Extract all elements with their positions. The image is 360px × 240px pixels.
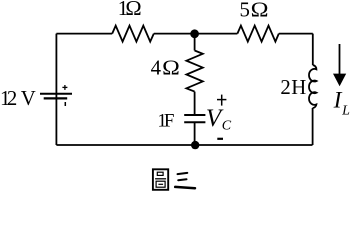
wire middle branch upper bbox=[194, 34, 196, 51]
voltage source V1 12V top plate long bbox=[40, 93, 72, 95]
resistor R3 4ohm zigzag bbox=[186, 51, 202, 92]
wire top-left segment bbox=[56, 33, 112, 35]
wire right branch lower bbox=[312, 108, 314, 145]
wire bottom bbox=[56, 144, 312, 146]
capacitor C1 1F top plate bbox=[184, 114, 205, 116]
svg-text:5: 5 bbox=[240, 0, 250, 21]
resistor R2 5ohm zigzag bbox=[237, 26, 278, 42]
svg-text:F: F bbox=[164, 110, 175, 131]
wire middle branch lower bbox=[194, 123, 196, 145]
svg-text:2: 2 bbox=[7, 87, 17, 110]
svg-text:Ω: Ω bbox=[251, 0, 269, 21]
inductor L1 2H coil bbox=[309, 65, 316, 108]
node junction bottom bbox=[191, 141, 199, 149]
wire middle branch between resistor and capacitor bbox=[194, 92, 196, 115]
svg-text:4: 4 bbox=[151, 56, 162, 79]
svg-text:Ω: Ω bbox=[162, 56, 180, 79]
svg-text:2: 2 bbox=[280, 76, 290, 99]
battery minus tick bbox=[64, 102, 66, 106]
battery plus sign bbox=[62, 85, 67, 90]
caption figure three char san bbox=[175, 173, 195, 188]
wire left branch bbox=[55, 34, 57, 145]
capacitor plus sign bbox=[217, 95, 226, 106]
svg-text:I: I bbox=[333, 88, 343, 114]
wire top-middle segment bbox=[154, 33, 238, 35]
resistor R1 1ohm zigzag bbox=[112, 26, 154, 42]
svg-text:C: C bbox=[222, 119, 232, 134]
caption figure three char tu bbox=[153, 169, 168, 190]
svg-text:H: H bbox=[291, 76, 306, 99]
wire right branch upper bbox=[312, 34, 314, 66]
svg-text:Ω: Ω bbox=[125, 0, 141, 20]
wire top-right segment bbox=[279, 33, 313, 35]
svg-text:V: V bbox=[21, 87, 36, 110]
current arrow IL bbox=[333, 44, 346, 86]
capacitor C1 1F bottom plate bbox=[184, 121, 205, 123]
svg-text:L: L bbox=[341, 103, 350, 118]
voltage source V1 12V bottom plate short bbox=[44, 97, 67, 99]
capacitor minus sign bbox=[217, 138, 223, 140]
node junction top bbox=[190, 29, 199, 38]
